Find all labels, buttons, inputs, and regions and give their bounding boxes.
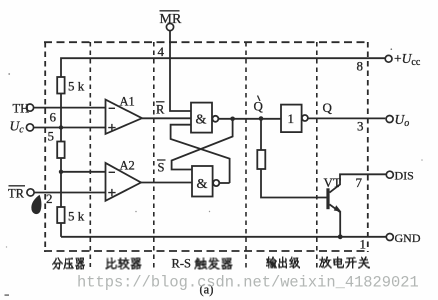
resistor R3 5k <box>57 207 64 223</box>
pin terminal GND <box>386 234 393 241</box>
svg-text:TH: TH <box>13 101 30 115</box>
svg-text:Q: Q <box>254 98 264 113</box>
svg-text:+Ucc: +Ucc <box>394 51 421 68</box>
svg-text:R: R <box>156 102 165 116</box>
svg-text:TR: TR <box>8 186 25 200</box>
wire MR vertical <box>170 31 191 111</box>
svg-text:S: S <box>158 160 165 174</box>
svg-text:Uc: Uc <box>10 119 25 136</box>
svg-text:&: & <box>197 177 208 192</box>
wire TR line <box>34 192 106 194</box>
wire Uo output line <box>308 117 385 119</box>
section label shuchuji <box>266 257 300 269</box>
pin terminal DIS <box>386 171 393 178</box>
A2 minus mark <box>109 171 115 173</box>
svg-text:6: 6 <box>50 110 57 125</box>
wire A2 minus reference line <box>61 171 106 173</box>
wire A1 output <box>142 117 191 119</box>
svg-text:VT: VT <box>324 175 341 190</box>
svg-text:5 k: 5 k <box>68 79 85 94</box>
resistor R4 <box>257 150 265 169</box>
wire +Ucc rail <box>61 58 385 77</box>
svg-text:Uo: Uo <box>395 112 410 129</box>
op-amp A2 comparator <box>106 163 142 201</box>
svg-text:GND: GND <box>395 231 421 245</box>
wire chain R3-GND <box>60 223 62 237</box>
svg-text:4: 4 <box>158 44 165 59</box>
ink blob artifact <box>31 195 41 214</box>
transistor VT base bar <box>326 188 329 209</box>
S overline <box>157 159 166 161</box>
section label fenyaqi <box>52 258 85 270</box>
pin terminal TH <box>26 104 33 111</box>
wire branch to R4 <box>260 119 262 151</box>
svg-text:R-S: R-S <box>172 257 192 271</box>
NAND gate G1 <box>191 103 212 133</box>
wire VT emitter <box>330 204 341 236</box>
section label fangdiankaiguan <box>319 257 370 269</box>
wire chain R2-R3 <box>60 158 62 207</box>
svg-text:1: 1 <box>288 111 295 126</box>
node divider-A2 junction <box>59 170 63 174</box>
node emitter-GND junction <box>338 234 343 239</box>
A1 minus mark <box>109 107 115 109</box>
Q overline tick <box>258 96 261 102</box>
svg-text:MR: MR <box>160 12 182 27</box>
node G1 output junction <box>230 117 235 122</box>
node R4 branch junction <box>259 116 264 121</box>
svg-text:DIS: DIS <box>395 168 414 182</box>
wire GND rail <box>61 236 386 238</box>
wire A2 output <box>141 182 192 184</box>
wire G1 feedback input <box>171 125 230 183</box>
section label bijiaoqi <box>106 258 142 270</box>
R overline <box>156 101 165 103</box>
section label chufaqi <box>195 258 233 270</box>
resistor R2 5k <box>57 142 64 159</box>
pin terminal Uo <box>386 116 393 123</box>
TR overline <box>9 185 26 187</box>
pin terminal MR <box>166 23 173 30</box>
transistor VT emitter arrow <box>334 205 342 212</box>
MR overline <box>160 10 180 12</box>
A1 plus mark <box>108 124 115 131</box>
resistor R1 5k <box>57 77 64 94</box>
svg-text:A2: A2 <box>120 158 135 172</box>
svg-text:5: 5 <box>48 129 55 144</box>
svg-text:A1: A1 <box>120 95 135 109</box>
wire G2 output to feedback <box>219 182 229 184</box>
op-amp A1 comparator <box>106 100 143 134</box>
pin terminal Uc <box>26 124 33 131</box>
wire VT collector <box>330 174 387 192</box>
svg-text:7: 7 <box>356 175 363 190</box>
svg-text:&: & <box>196 113 207 128</box>
A2 plus mark <box>108 189 115 196</box>
wire TH line <box>34 107 106 109</box>
section divider lines <box>90 42 316 268</box>
wire Uc line <box>34 127 106 129</box>
pin terminal +Ucc <box>385 55 392 62</box>
wire G2 feedback input cross <box>172 119 233 170</box>
node Uc-divider junction <box>59 125 63 129</box>
pin terminal TR <box>27 189 34 196</box>
inverter U1 box <box>281 105 302 133</box>
wire R4 to VT base <box>261 169 327 198</box>
scan specks <box>5 48 423 296</box>
svg-text:Q: Q <box>323 100 333 115</box>
svg-text:8: 8 <box>357 59 364 74</box>
dashed enclosure box <box>44 42 368 251</box>
wire G1 output <box>218 118 281 120</box>
svg-text:https://blog.csdn.net/weixin_4: https://blog.csdn.net/weixin_41829021 <box>77 274 419 292</box>
NAND gate G2 <box>192 166 213 197</box>
wire chain R1-R2 <box>60 94 62 142</box>
svg-text:3: 3 <box>357 119 364 134</box>
svg-text:1: 1 <box>360 237 367 252</box>
svg-text:5 k: 5 k <box>68 209 85 224</box>
svg-text:2: 2 <box>46 191 53 206</box>
